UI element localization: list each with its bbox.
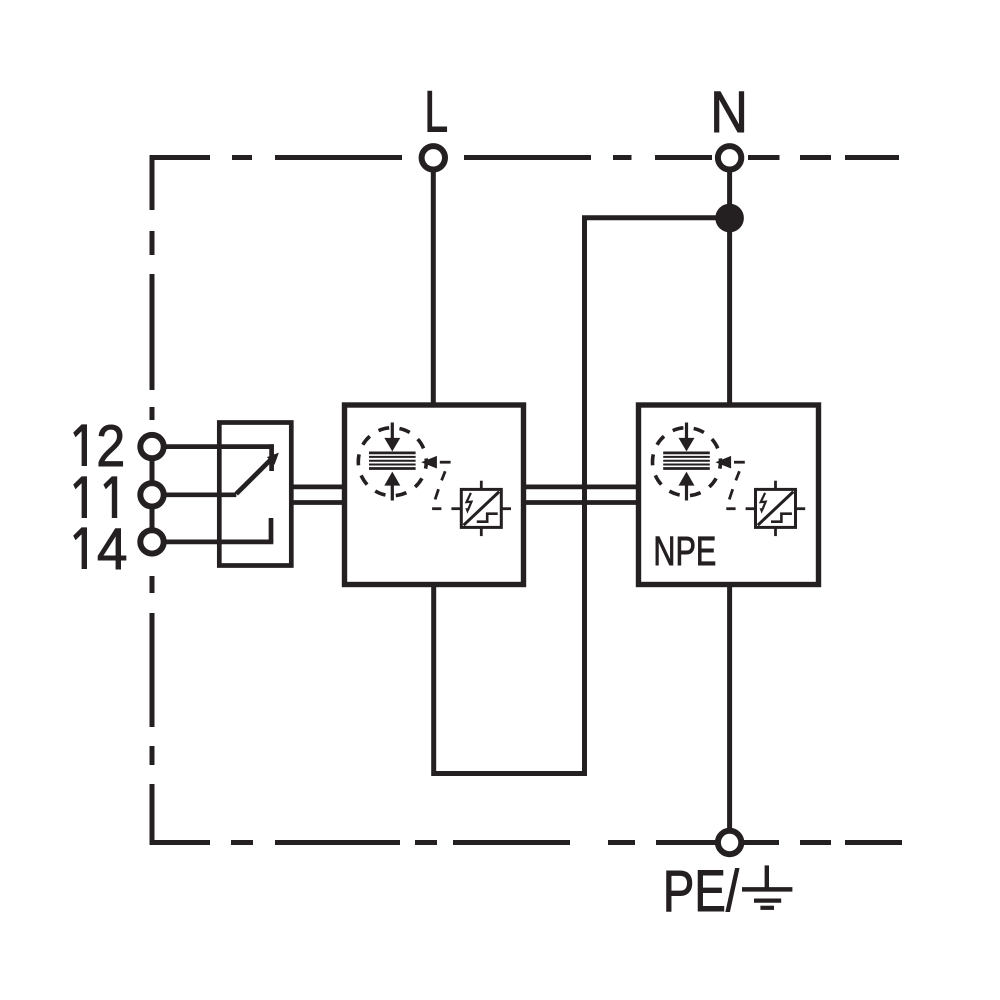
wire terminal 11 to common contact: [164, 492, 236, 497]
svg-text:L: L: [424, 79, 448, 144]
switch blade arrowhead: [267, 453, 279, 465]
svg-text:2: 2: [96, 413, 125, 478]
wire N terminal down to NPE module top: [727, 170, 732, 407]
contact box outline: [219, 423, 291, 566]
terminal L: [422, 146, 445, 169]
terminal 12: [140, 435, 163, 458]
svg-text:NPE: NPE: [653, 529, 716, 574]
terminal 11: [140, 483, 163, 506]
wire NPE module bottom to PE terminal: [727, 583, 732, 832]
terminal PE: [718, 831, 741, 854]
border bottom edge: [152, 840, 902, 845]
SPD module 1 box: [345, 405, 524, 585]
mechanical link SPD module 1 to NPE module (double line): [523, 487, 639, 503]
border top edge: [152, 155, 899, 160]
terminal N: [718, 146, 741, 169]
wire L terminal to SPD module 1 top: [431, 170, 436, 407]
wire terminal 12 to NC contact: [164, 444, 274, 471]
wire terminal 14 to NO contact: [164, 518, 273, 542]
SPD module 1 spark gap + varistor symbol: [358, 423, 511, 537]
svg-text:PE/: PE/: [663, 859, 740, 924]
svg-text:N: N: [710, 79, 748, 144]
mechanical link contact box to SPD module 1 (double line): [291, 487, 346, 503]
switch moving contact blade: [236, 460, 270, 494]
ground symbol: [742, 865, 792, 907]
border left edge: [150, 155, 155, 845]
NPE module box: [639, 405, 819, 585]
NPE module spark gap + varistor symbol: [653, 423, 806, 537]
label 14: [73, 517, 127, 582]
wire SPD module 1 bottom loop to N junction: [434, 218, 726, 774]
svg-text:4: 4: [97, 517, 128, 582]
label 12: [73, 413, 125, 478]
label 11: [73, 476, 117, 518]
terminal 14: [140, 530, 163, 553]
junction node on N line: [715, 204, 744, 233]
